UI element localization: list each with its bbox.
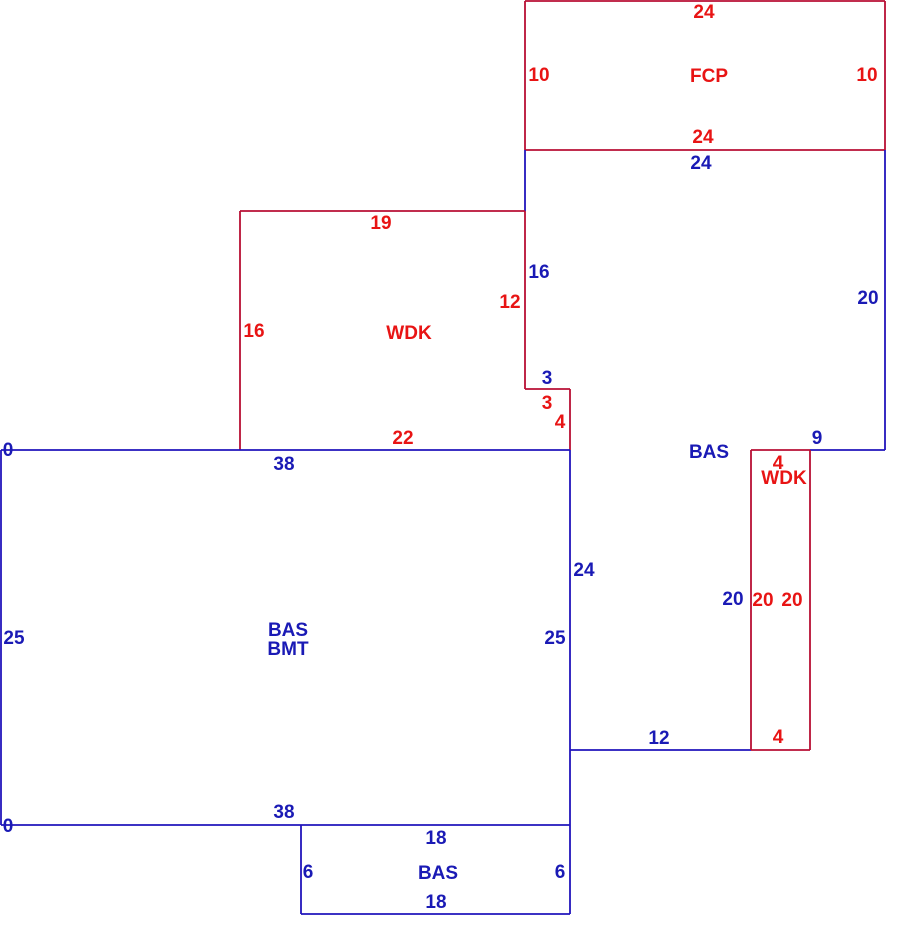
wire bbox=[525, 149, 885, 151]
svg-text:3: 3 bbox=[542, 368, 553, 389]
svg-text:16: 16 bbox=[243, 321, 264, 342]
svg-text:24: 24 bbox=[693, 2, 715, 23]
wire bbox=[524, 150, 526, 211]
wire bbox=[750, 450, 752, 750]
wire bbox=[525, 388, 570, 390]
svg-text:24: 24 bbox=[692, 127, 714, 148]
svg-text:18: 18 bbox=[425, 828, 446, 849]
svg-text:BAS: BAS bbox=[418, 863, 458, 884]
svg-text:4: 4 bbox=[555, 412, 566, 433]
wire bbox=[239, 211, 241, 450]
svg-text:25: 25 bbox=[544, 628, 566, 649]
svg-text:0: 0 bbox=[3, 440, 14, 461]
svg-text:10: 10 bbox=[528, 65, 549, 86]
svg-text:9: 9 bbox=[812, 428, 823, 449]
wire bbox=[0, 450, 2, 825]
svg-text:22: 22 bbox=[392, 428, 413, 449]
wire bbox=[524, 1, 526, 150]
wire bbox=[884, 1, 886, 150]
svg-text:20: 20 bbox=[857, 288, 878, 309]
wire bbox=[751, 749, 810, 751]
wire bbox=[809, 450, 811, 750]
wire bbox=[751, 449, 810, 451]
svg-text:20: 20 bbox=[781, 590, 802, 611]
svg-text:20: 20 bbox=[722, 589, 743, 610]
wire bbox=[569, 450, 571, 825]
svg-text:24: 24 bbox=[573, 560, 595, 581]
svg-text:12: 12 bbox=[499, 292, 520, 313]
svg-text:WDK: WDK bbox=[761, 468, 807, 489]
svg-text:0: 0 bbox=[3, 816, 14, 837]
svg-text:20: 20 bbox=[752, 590, 773, 611]
svg-text:38: 38 bbox=[273, 802, 294, 823]
svg-text:10: 10 bbox=[856, 65, 877, 86]
svg-text:BMT: BMT bbox=[267, 639, 309, 660]
wire bbox=[569, 825, 571, 914]
svg-text:3: 3 bbox=[542, 393, 553, 414]
svg-text:BAS: BAS bbox=[268, 620, 308, 641]
wire bbox=[884, 150, 886, 450]
svg-text:16: 16 bbox=[528, 262, 549, 283]
wire bbox=[524, 211, 526, 389]
svg-text:18: 18 bbox=[425, 892, 446, 913]
svg-text:6: 6 bbox=[555, 862, 566, 883]
svg-text:BAS: BAS bbox=[689, 442, 729, 463]
wire bbox=[569, 389, 571, 450]
wire bbox=[570, 749, 751, 751]
svg-text:FCP: FCP bbox=[690, 66, 728, 87]
wire bbox=[240, 210, 525, 212]
wire bbox=[1, 449, 570, 451]
svg-text:4: 4 bbox=[773, 727, 784, 748]
wire bbox=[810, 449, 885, 451]
wire bbox=[1, 824, 570, 826]
svg-text:WDK: WDK bbox=[386, 323, 432, 344]
svg-text:6: 6 bbox=[303, 862, 314, 883]
svg-text:24: 24 bbox=[690, 153, 712, 174]
wire bbox=[301, 913, 570, 915]
wire bbox=[525, 0, 885, 2]
svg-text:19: 19 bbox=[370, 213, 391, 234]
svg-text:38: 38 bbox=[273, 454, 294, 475]
svg-text:12: 12 bbox=[648, 728, 669, 749]
wire bbox=[300, 825, 302, 914]
svg-text:25: 25 bbox=[3, 628, 25, 649]
